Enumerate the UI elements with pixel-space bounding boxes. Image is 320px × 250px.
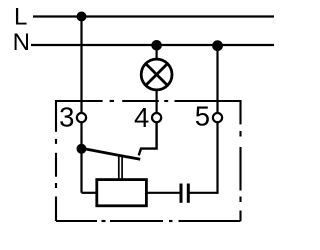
- switch S1 blade: [82, 148, 141, 159]
- wire N line: [31, 44, 274, 46]
- terminal 5: [213, 113, 222, 122]
- capacitor C1: [181, 184, 188, 203]
- junction dot on L: [77, 12, 87, 22]
- timer mechanism box K1: [97, 180, 147, 206]
- wire lamp to terminal 4: [156, 90, 158, 113]
- wire L line: [33, 15, 274, 17]
- svg-text:5: 5: [195, 101, 210, 132]
- enclosure right border: [239, 100, 241, 221]
- enclosure top border: [56, 100, 241, 102]
- wire terminal 5 down to capacitor node: [216, 123, 218, 194]
- wire terminal 3 down to timer: [80, 123, 82, 193]
- svg-text:N: N: [13, 29, 30, 56]
- junction dot switch pivot: [77, 144, 87, 154]
- svg-text:L: L: [14, 4, 27, 31]
- svg-text:4: 4: [134, 102, 149, 133]
- wire capacitor to terminal 5 branch: [190, 192, 218, 194]
- switch actuator link (double line): [119, 155, 122, 179]
- wire pivot to timer box: [82, 192, 97, 194]
- wire N to terminal 5: [216, 45, 218, 112]
- wire from L to terminal 3: [80, 17, 82, 113]
- svg-text:3: 3: [59, 102, 74, 133]
- junction dot on N at lamp: [151, 40, 162, 51]
- switch fixed contact from terminal 4: [139, 123, 157, 156]
- junction dot on N at terminal 5 branch: [212, 40, 223, 51]
- wire N to lamp: [156, 45, 158, 60]
- lamp E1: [141, 59, 172, 90]
- enclosure left border: [55, 100, 57, 221]
- wire timer box to capacitor: [147, 192, 181, 194]
- enclosure bottom border: [56, 220, 241, 222]
- terminal 3: [77, 113, 86, 122]
- terminal 4: [152, 113, 161, 122]
